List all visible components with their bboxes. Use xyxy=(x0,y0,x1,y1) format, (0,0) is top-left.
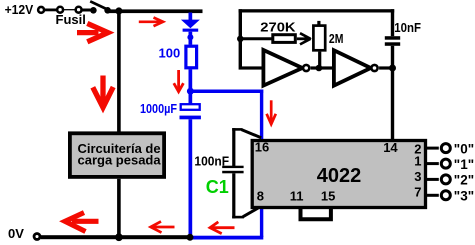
terminal output 0 xyxy=(441,144,450,153)
node junction top-left xyxy=(115,7,122,14)
node junction blue-black xyxy=(187,234,194,241)
capacitor 10nF xyxy=(385,36,400,46)
wire blue riser to pin8 xyxy=(260,207,263,237)
svg-text:2M: 2M xyxy=(329,31,344,46)
wire blue vertical xyxy=(189,69,193,91)
wire vertical to load box xyxy=(117,11,121,132)
terminal output 2 xyxy=(441,175,450,184)
wire xyxy=(82,9,91,12)
IC U2 4022 xyxy=(252,141,425,208)
current arrow right top-left xyxy=(77,23,108,41)
pin 1 stub xyxy=(427,162,439,165)
svg-text:14: 14 xyxy=(383,140,398,155)
svg-text:3: 3 xyxy=(414,169,421,184)
svg-text:"3": "3" xyxy=(454,189,474,204)
oscillator left vertical wire xyxy=(239,9,242,69)
terminal 0V xyxy=(34,234,40,240)
wire between inverters xyxy=(311,66,334,69)
svg-text:100nF: 100nF xyxy=(194,153,229,168)
pin 2 stub xyxy=(427,147,439,150)
current arrow left small bottom xyxy=(210,222,235,234)
current arrow down left xyxy=(93,76,113,108)
current arrow down small at resistor xyxy=(174,70,184,92)
node junction right xyxy=(389,65,396,72)
svg-text:carga pesada: carga pesada xyxy=(78,152,162,167)
wire 0V rail xyxy=(41,235,191,239)
oscillator top feedback wire xyxy=(239,9,395,12)
wire xyxy=(45,8,57,11)
wire inverter2 output xyxy=(379,66,394,69)
load box: circuiteria de carga pesada xyxy=(70,133,164,177)
svg-text:100: 100 xyxy=(159,46,181,61)
diode D1 xyxy=(181,13,200,45)
resistor 100 xyxy=(186,46,197,68)
svg-text:8: 8 xyxy=(257,188,264,203)
capacitor C1 100nF bracket xyxy=(222,128,261,218)
current arrow left small mid-rail xyxy=(151,221,175,232)
current arrow left big bottom xyxy=(65,213,99,232)
wire vertical box to 0V rail xyxy=(117,179,121,239)
svg-text:11: 11 xyxy=(290,188,304,203)
wiper arrow into 2M xyxy=(297,33,312,44)
terminal output 3 xyxy=(441,191,450,200)
resistor 270K xyxy=(273,35,296,43)
wire blue bottom horizontal xyxy=(190,236,263,240)
inverter U1B xyxy=(334,50,378,85)
svg-text:"0": "0" xyxy=(454,141,474,156)
wire blue drop to pin16 xyxy=(260,90,263,140)
wire pins 11-15 link xyxy=(301,209,331,219)
node junction bottom xyxy=(115,233,123,241)
node junction mid xyxy=(316,65,323,72)
current arrow right small top xyxy=(139,18,163,27)
svg-text:0V: 0V xyxy=(8,226,24,241)
pin 3 stub xyxy=(427,178,439,181)
pin 7 stub xyxy=(427,194,439,197)
node junction blue xyxy=(187,88,194,95)
wire right vertical top xyxy=(391,9,394,36)
svg-text:16: 16 xyxy=(255,140,269,155)
svg-text:+12V: +12V xyxy=(5,2,34,17)
svg-text:7: 7 xyxy=(414,185,421,200)
svg-text:270K: 270K xyxy=(260,20,296,35)
inverter U1A xyxy=(263,50,309,86)
switch S1 xyxy=(90,1,111,13)
wire to 270K xyxy=(242,37,272,40)
svg-text:"2": "2" xyxy=(454,173,474,188)
potentiometer 2M xyxy=(313,21,325,68)
fuse F1 xyxy=(57,7,81,13)
svg-text:4022: 4022 xyxy=(317,165,362,187)
terminal +12V xyxy=(38,7,44,13)
wire top rail xyxy=(108,9,203,13)
node junction left xyxy=(237,36,244,43)
svg-text:10nF: 10nF xyxy=(394,20,421,35)
svg-text:C1: C1 xyxy=(206,177,229,197)
svg-text:"1": "1" xyxy=(454,157,474,172)
terminal output 1 xyxy=(441,159,450,168)
wire blue horizontal to pin16 xyxy=(190,90,263,94)
capacitor 1000uF xyxy=(180,91,201,237)
wire inverter1 input xyxy=(242,66,264,69)
svg-text:1000µF: 1000µF xyxy=(140,101,177,116)
wire right vertical to pin14 xyxy=(391,46,394,140)
svg-text:Fusil: Fusil xyxy=(56,12,86,27)
current arrow down small at pin16 xyxy=(267,100,276,124)
svg-text:1: 1 xyxy=(414,153,421,168)
svg-text:15: 15 xyxy=(321,188,335,203)
